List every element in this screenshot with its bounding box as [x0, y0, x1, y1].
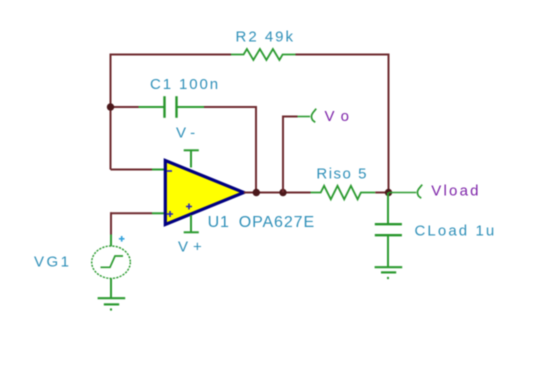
svg-text:Riso 5: Riso 5	[316, 166, 368, 183]
wire top horizontal right of R2	[296, 54, 389, 56]
wire VG1 top vertical	[110, 212, 112, 234]
capacitor CLoad	[375, 224, 402, 235]
label V+	[178, 239, 207, 256]
label VG1	[34, 254, 72, 271]
wire Riso right to Vload node	[375, 192, 388, 194]
op-amp U1 non-inverting input plus marker	[167, 211, 173, 217]
wire top-left vertical (feedback left rail)	[110, 55, 112, 170]
ground under VG1	[98, 298, 126, 309]
capacitor C1	[139, 96, 205, 118]
wire C1 row left (from node A to C1)	[111, 106, 139, 108]
junction output node (C1 drop)	[253, 189, 260, 196]
svg-text:C1 100n: C1 100n	[150, 76, 220, 93]
op-amp U1 inverting input minus marker	[167, 170, 172, 172]
junction node A (left rail / C1)	[107, 103, 114, 110]
op-amp U1	[165, 161, 244, 225]
label Vload	[431, 183, 480, 200]
capacitor CLoad bottom lead	[387, 236, 389, 267]
wire inverting input horizontal	[111, 169, 153, 171]
wire right vertical from R2 down to Vload node	[388, 54, 390, 193]
voltage pin Vload clip	[417, 185, 422, 199]
label CLoad 1u	[415, 222, 497, 239]
svg-text:Vload: Vload	[431, 183, 480, 200]
voltage source VG1 plus marker	[119, 236, 125, 242]
resistor Riso	[311, 186, 376, 200]
voltage pin Vo clip	[298, 109, 317, 123]
op-amp U1 V- supply pin	[184, 150, 199, 167]
svg-text:V+: V+	[178, 239, 207, 256]
svg-text:Vo: Vo	[325, 108, 357, 125]
op-amp U1 V+ supply plus marker	[186, 204, 192, 210]
label Vo	[325, 108, 357, 125]
ground under CLoad	[375, 267, 403, 278]
label U1 OPA627E	[208, 214, 315, 231]
wire Vo tap vertical and horizontal	[283, 117, 298, 193]
svg-text:R2 49k: R2 49k	[236, 29, 296, 46]
op-amp U1 inverting input pin	[152, 169, 165, 171]
wire non-inverting input horizontal	[110, 212, 152, 214]
wire C1 drop vertical to output node	[255, 106, 257, 193]
svg-text:V-: V-	[176, 125, 200, 142]
wire output horizontal from op-amp to Riso	[244, 192, 311, 194]
voltage source VG1	[92, 235, 131, 299]
label C1 100n	[150, 76, 220, 93]
op-amp U1 V+ supply pin	[184, 215, 199, 232]
label R2 49k	[236, 29, 296, 46]
junction Vo tap node	[279, 189, 286, 196]
svg-text:VG1: VG1	[34, 254, 72, 271]
svg-text:CLoad 1u: CLoad 1u	[415, 222, 497, 239]
svg-text:U1 OPA627E: U1 OPA627E	[208, 214, 315, 231]
capacitor CLoad top lead	[387, 193, 389, 224]
junction Vload node	[385, 189, 392, 196]
resistor R2	[231, 49, 296, 60]
label V-	[176, 125, 200, 142]
wire C1 row right to drop vertical	[204, 106, 256, 108]
op-amp U1 non-inverting input pin	[152, 212, 165, 214]
wire Vload node to clip	[389, 192, 417, 194]
label Riso 5	[316, 166, 368, 183]
wire top horizontal left of R2	[110, 54, 232, 56]
